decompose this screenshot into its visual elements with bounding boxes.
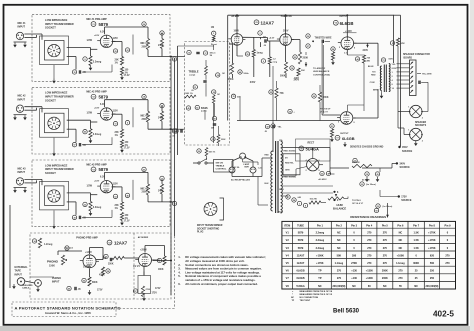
svg-text:MIC #1 PRE-AMP: MIC #1 PRE-AMP bbox=[86, 18, 107, 21]
svg-text:INPUT TRANSFORMER: INPUT TRANSFORMER bbox=[45, 95, 74, 99]
svg-text:Pin 7: Pin 7 bbox=[413, 224, 420, 227]
svg-text:Pin 2: Pin 2 bbox=[336, 224, 343, 227]
svg-text:27: 27 bbox=[173, 59, 175, 61]
svg-text:17.2V: 17.2V bbox=[124, 220, 130, 222]
capacitor .05 phono cathode bbox=[67, 286, 82, 291]
svg-text:12AX7: 12AX7 bbox=[297, 254, 305, 257]
wire plate to coupling bbox=[105, 27, 149, 57]
svg-text:200K: 200K bbox=[323, 97, 329, 99]
svg-text:115V: 115V bbox=[113, 38, 119, 40]
label MIC #1 INPUT bbox=[18, 22, 27, 29]
svg-text:240K: 240K bbox=[158, 117, 164, 120]
ac receptacle 1 bbox=[229, 167, 235, 173]
svg-text:402-5: 402-5 bbox=[433, 310, 454, 319]
svg-text:6L6GB: 6L6GB bbox=[296, 277, 304, 280]
svg-text:BRN: BRN bbox=[373, 90, 378, 92]
svg-text:INPUT: INPUT bbox=[18, 171, 26, 174]
svg-text:PHONO: PHONO bbox=[47, 260, 59, 264]
svg-text:NO CONNECTION: NO CONNECTION bbox=[300, 297, 319, 299]
svg-text:LOW IMPEDANCE: LOW IMPEDANCE bbox=[45, 91, 68, 95]
svg-text:6L6GB: 6L6GB bbox=[296, 270, 304, 273]
wire input to socket bbox=[24, 179, 42, 185]
svg-text:BLUE: BLUE bbox=[368, 66, 374, 68]
svg-text:TO ARM OF: TO ARM OF bbox=[313, 67, 326, 70]
svg-text:TREBLE: TREBLE bbox=[189, 70, 199, 73]
svg-text:11: 11 bbox=[115, 124, 117, 126]
circled ref mid bbox=[288, 109, 296, 113]
node 9 junction bbox=[333, 199, 339, 202]
svg-text:205V: 205V bbox=[283, 31, 289, 33]
svg-text:5: 5 bbox=[338, 122, 339, 124]
svg-text:LOW IMPEDANCE: LOW IMPEDANCE bbox=[45, 163, 68, 167]
label 150K 1pc bbox=[184, 93, 193, 95]
svg-text:RECT: RECT bbox=[308, 142, 315, 145]
svg-text:SOCKETS: SOCKETS bbox=[415, 125, 427, 127]
svg-text:INPUT TRANSFORMER: INPUT TRANSFORMER bbox=[45, 167, 74, 171]
svg-text:Pin 5: Pin 5 bbox=[382, 224, 389, 227]
resistor 240K mixer bbox=[158, 104, 164, 122]
svg-text:270: 270 bbox=[367, 254, 372, 257]
svg-text:(only): (only) bbox=[201, 111, 207, 113]
svg-text:SOCKET: SOCKET bbox=[45, 171, 56, 175]
ground at grid resistor bbox=[89, 66, 93, 71]
resistor 75K bleeder bbox=[269, 88, 284, 98]
svg-text:46: 46 bbox=[126, 194, 128, 197]
svg-text:37: 37 bbox=[307, 46, 309, 48]
svg-text:+40 450V: +40 450V bbox=[318, 178, 327, 181]
svg-text:INPUT TRANSFORMER: INPUT TRANSFORMER bbox=[45, 22, 74, 26]
resistor 25K cathode bbox=[115, 202, 124, 211]
label 6.3V heater bbox=[94, 177, 105, 183]
svg-text:SOCKET: SOCKET bbox=[45, 26, 56, 30]
label OUTPUT V6 bbox=[339, 16, 348, 18]
label COM lead bbox=[370, 82, 375, 84]
svg-text:250K: 250K bbox=[142, 46, 148, 48]
svg-text:22: 22 bbox=[126, 50, 128, 52]
label 100V bbox=[234, 31, 240, 33]
label 1/2W bbox=[87, 40, 93, 42]
svg-text:BASS: BASS bbox=[201, 107, 208, 110]
resistor 800 ohm filter bbox=[352, 158, 372, 167]
wire twisted pair run bbox=[322, 41, 340, 115]
svg-text:TUBE: TUBE bbox=[297, 224, 304, 227]
speaker connector board outline bbox=[410, 60, 417, 96]
transformer T2 output primary bbox=[380, 66, 381, 91]
fuse 2 amp bbox=[243, 163, 262, 170]
tube V6 designator bbox=[333, 20, 353, 25]
svg-text:V6 & V7: V6 & V7 bbox=[320, 112, 329, 114]
svg-text:SOCKET: SOCKET bbox=[45, 98, 56, 102]
svg-text:1.2meg: 1.2meg bbox=[44, 243, 53, 246]
resistor 150 ohm bbox=[120, 212, 129, 220]
table footnotes bbox=[291, 290, 333, 302]
svg-text:200K: 200K bbox=[382, 270, 388, 273]
svg-text:SOURCE: SOURCE bbox=[401, 199, 412, 202]
label 6.3V heater bbox=[94, 104, 105, 110]
svg-text:270: 270 bbox=[445, 254, 450, 257]
dashed chassis bottom edge bbox=[119, 236, 175, 309]
label 115V plate bbox=[113, 38, 119, 40]
resistor 250K series bbox=[112, 256, 124, 259]
svg-text:1M: 1M bbox=[210, 55, 213, 57]
wire plate to coupling bbox=[105, 100, 149, 130]
wire rail drop V5 bbox=[236, 14, 287, 34]
resistor 240K mixer bbox=[158, 176, 164, 194]
label low impedance input transformer socket bbox=[45, 163, 74, 175]
resistor treble 1M bbox=[205, 66, 225, 77]
pot PHONO 150K bbox=[47, 246, 69, 267]
svg-text:MEASURED FROM PIN 8 OF V8: MEASURED FROM PIN 8 OF V8 bbox=[300, 290, 333, 293]
svg-text:Measured values are from socke: Measured values are from socket pin to c… bbox=[185, 267, 262, 271]
svg-text:270: 270 bbox=[367, 239, 372, 242]
svg-text:SOURCE: SOURCE bbox=[400, 166, 411, 169]
label 6.3V heater bbox=[94, 31, 105, 37]
svg-text:OUTPUT: OUTPUT bbox=[339, 16, 348, 18]
svg-text:+140V: +140V bbox=[85, 251, 92, 254]
wire tape input run bbox=[10, 205, 54, 288]
svg-text:31: 31 bbox=[194, 87, 196, 89]
resistor 470K plate bbox=[99, 267, 110, 277]
svg-text:HUM BALANCE: HUM BALANCE bbox=[313, 70, 330, 73]
svg-text:MIC #2: MIC #2 bbox=[141, 116, 149, 118]
svg-text:115V: 115V bbox=[113, 111, 119, 113]
input transformer socket XV2 bbox=[40, 109, 69, 138]
svg-text:1/2 V4: 1/2 V4 bbox=[133, 265, 140, 268]
svg-text:50H: 50H bbox=[389, 59, 393, 61]
ac receptacle 2 bbox=[250, 167, 256, 173]
dashed divider AF mixer bbox=[133, 233, 135, 299]
label EXTERNAL TAPE INPUT bbox=[15, 266, 29, 276]
transformer T2 core bbox=[384, 65, 386, 93]
svg-text:AF AMP: AF AMP bbox=[231, 15, 240, 18]
svg-text:3.3meg: 3.3meg bbox=[93, 206, 102, 209]
wire heater bus bbox=[282, 186, 348, 203]
svg-text:45: 45 bbox=[187, 107, 189, 110]
resistor 250K phase plate bbox=[293, 52, 309, 80]
svg-text:680K: 680K bbox=[92, 282, 98, 284]
svg-text:12AX7: 12AX7 bbox=[297, 262, 305, 265]
capacitor treble .05 bbox=[191, 81, 207, 92]
label OUTPUT V7 bbox=[335, 133, 355, 141]
resistor 680K bbox=[82, 277, 98, 286]
wire rail drop V6 bbox=[346, 14, 348, 37]
svg-text:MIC #3 PRE-AMP: MIC #3 PRE-AMP bbox=[86, 163, 107, 166]
svg-text:270: 270 bbox=[383, 254, 388, 257]
svg-text:33: 33 bbox=[321, 173, 323, 175]
label low impedance input transformer socket bbox=[45, 91, 74, 103]
dashed enclosure phono pre-amp bbox=[30, 233, 171, 299]
svg-text:470K: 470K bbox=[99, 274, 105, 277]
label to pin 8 bbox=[352, 200, 364, 205]
pot bass 1M bbox=[212, 90, 221, 103]
wire V6 screen bbox=[347, 50, 364, 56]
svg-text:200K: 200K bbox=[382, 277, 388, 280]
svg-text:EXTERNAL: EXTERNAL bbox=[15, 266, 29, 269]
svg-text:Twisted: Twisted bbox=[65, 247, 74, 250]
svg-text:5U4GA: 5U4GA bbox=[296, 285, 305, 288]
label MIC #2 INPUT bbox=[18, 95, 27, 102]
svg-text:1M: 1M bbox=[217, 94, 220, 96]
ground phono cathode box bbox=[142, 272, 146, 302]
svg-text:+100K: +100K bbox=[316, 254, 324, 257]
wire block bottom bbox=[52, 65, 112, 84]
connector external tape jack bbox=[12, 278, 34, 289]
circled ref 6PK bbox=[390, 38, 405, 46]
socket shorting plug bbox=[204, 198, 224, 220]
wire ac to transformer bbox=[232, 158, 271, 205]
svg-text:560: 560 bbox=[430, 262, 435, 265]
label 17.2V cathode bbox=[124, 75, 130, 77]
svg-text:180K: 180K bbox=[158, 269, 164, 271]
label 1/2W bbox=[87, 185, 93, 187]
svg-text:OUTPUT: OUTPUT bbox=[340, 133, 349, 135]
svg-text:PHASE INV: PHASE INV bbox=[281, 15, 293, 18]
label BLK leads bbox=[265, 155, 284, 214]
svg-text:6L6GB: 6L6GB bbox=[342, 136, 355, 141]
svg-text:41: 41 bbox=[173, 202, 175, 205]
svg-text:NC: NC bbox=[337, 239, 341, 242]
label MIC #3 PRE-AMP header bbox=[86, 163, 107, 166]
svg-text:9: 9 bbox=[263, 61, 264, 63]
svg-text:6.: 6. bbox=[178, 282, 181, 286]
switch SW on treble control bbox=[193, 159, 233, 173]
svg-text:INPUT: INPUT bbox=[52, 281, 60, 284]
svg-text:V7: V7 bbox=[336, 138, 338, 140]
svg-text:1.5K: 1.5K bbox=[414, 232, 419, 235]
pot R6 1M direct bbox=[211, 27, 217, 46]
label AC RECEPTACLES bbox=[231, 179, 251, 182]
svg-text:V8: V8 bbox=[300, 148, 302, 150]
label 345V a bbox=[250, 81, 256, 84]
svg-text:DENOTES CHASSIS GROUND: DENOTES CHASSIS GROUND bbox=[350, 146, 384, 149]
svg-text:INPUT: INPUT bbox=[18, 98, 26, 101]
label MIC #1 PRE-AMP header bbox=[86, 18, 107, 21]
svg-text:1/2W: 1/2W bbox=[87, 185, 93, 187]
svg-text:BALANCE: BALANCE bbox=[333, 206, 346, 210]
transformer T2 secondary bbox=[389, 64, 390, 92]
svg-text:NC: NC bbox=[399, 239, 403, 242]
svg-text:CABLE: CABLE bbox=[22, 286, 30, 289]
svg-text:270: 270 bbox=[383, 247, 388, 250]
label 345V b bbox=[294, 78, 300, 81]
connector MIC #1 input jack bbox=[13, 32, 27, 47]
svg-text:MIC #1: MIC #1 bbox=[141, 43, 149, 45]
svg-text:1.1meg: 1.1meg bbox=[335, 262, 344, 265]
svg-text:220K: 220K bbox=[221, 139, 226, 141]
svg-text:240K: 240K bbox=[158, 189, 164, 192]
svg-text:CONTROL: CONTROL bbox=[216, 169, 227, 171]
svg-text:A PHOTOFACT STANDARD NOTATION: A PHOTOFACT STANDARD NOTATION SCHEMATIC bbox=[15, 305, 121, 310]
label MIC #3 INPUT bbox=[18, 167, 27, 174]
wire V7 plate bbox=[354, 89, 378, 118]
circled ref v6 cathode bbox=[331, 47, 335, 65]
wire mixer feed bbox=[178, 45, 214, 50]
svg-text:270: 270 bbox=[367, 232, 372, 235]
svg-text:V2: V2 bbox=[92, 97, 94, 99]
svg-text:6PK: 6PK bbox=[401, 43, 406, 45]
capacitor output top bbox=[306, 34, 324, 48]
connector MIC #2 input jack bbox=[13, 105, 27, 120]
wire AF amp internals bbox=[230, 37, 322, 78]
rectifier V8 5U4GA bbox=[306, 159, 321, 173]
label YEL-GRN tap bbox=[417, 74, 432, 76]
svg-text:3 2: 3 2 bbox=[344, 53, 347, 55]
svg-text:ITEM: ITEM bbox=[284, 224, 290, 227]
heater circuit refs bbox=[279, 189, 321, 208]
wire bus vertical 1 bbox=[170, 56, 172, 295]
svg-text:+100K: +100K bbox=[397, 254, 405, 257]
svg-text:YEL: YEL bbox=[392, 64, 397, 66]
resistor 750 ohm screen bbox=[355, 55, 371, 63]
tube V4 designator bbox=[107, 240, 128, 245]
svg-text:3.3meg: 3.3meg bbox=[93, 61, 102, 64]
resistor 220K bbox=[211, 135, 226, 144]
tube V2 designator bbox=[91, 94, 109, 99]
svg-text:Pin 9: Pin 9 bbox=[445, 224, 452, 227]
resistor 150K 1pc bbox=[185, 95, 197, 98]
svg-text:270: 270 bbox=[398, 270, 403, 273]
capacitor .05 coupling bbox=[72, 70, 86, 74]
wire output to bus bbox=[148, 106, 170, 130]
svg-text:RESISTANCE READINGS: RESISTANCE READINGS bbox=[350, 215, 386, 219]
wire B+ long vertical bbox=[394, 15, 401, 146]
ground at grid resistor bbox=[89, 138, 93, 143]
svg-text:20K: 20K bbox=[301, 70, 305, 72]
svg-text:NC: NC bbox=[318, 285, 322, 288]
svg-text:270: 270 bbox=[337, 270, 342, 273]
svg-text:1: 1 bbox=[299, 203, 300, 205]
label RECT bbox=[296, 139, 331, 161]
svg-text:20: 20 bbox=[198, 151, 200, 153]
svg-text:29: 29 bbox=[114, 51, 116, 53]
svg-text:270: 270 bbox=[367, 262, 372, 265]
svg-text:MIC #2: MIC #2 bbox=[18, 95, 27, 98]
svg-text:GRN: GRN bbox=[279, 189, 284, 191]
svg-text:MIC #2 PRE-AMP: MIC #2 PRE-AMP bbox=[86, 91, 107, 94]
svg-text:29: 29 bbox=[313, 96, 315, 98]
svg-text:250: 250 bbox=[430, 277, 435, 280]
svg-text:variation of +-15% in voltage: variation of +-15% in voltage and resist… bbox=[185, 278, 255, 282]
svg-text:17.2V: 17.2V bbox=[124, 148, 130, 150]
pot MIC #1 level 250K bbox=[141, 22, 150, 50]
svg-text:17: 17 bbox=[204, 53, 206, 55]
svg-text:270: 270 bbox=[383, 239, 388, 242]
label 205V bbox=[283, 31, 289, 33]
svg-text:Socket connections are shown a: Socket connections are shown as bottom v… bbox=[185, 263, 249, 267]
input transformer socket XV1 bbox=[40, 36, 69, 65]
wire sources bbox=[380, 166, 399, 197]
label AF MIXER bbox=[138, 236, 149, 239]
svg-text:5879: 5879 bbox=[298, 239, 304, 242]
svg-text:17.2V: 17.2V bbox=[124, 75, 130, 77]
resistor 15K 1pc bbox=[197, 148, 216, 157]
pot MIC #2 level 250K bbox=[141, 95, 150, 123]
svg-text:200,000(M): 200,000(M) bbox=[426, 285, 439, 288]
transformer T2 designator bbox=[380, 58, 393, 99]
svg-text:51: 51 bbox=[331, 126, 333, 128]
circled ref cathode parts bbox=[113, 121, 129, 126]
svg-text:173V: 173V bbox=[401, 196, 407, 199]
svg-text:MEASURED FROM PIN 5 OF V5: MEASURED FROM PIN 5 OF V5 bbox=[300, 293, 333, 296]
resistor 25K cathode bbox=[115, 129, 124, 138]
secondary tap labels bbox=[392, 64, 397, 90]
svg-text:+170K: +170K bbox=[316, 262, 324, 265]
triode V5b phase inverter bbox=[277, 34, 294, 46]
label BRN lead bbox=[373, 90, 378, 92]
solid box phono cathode network bbox=[138, 276, 151, 294]
wire screens supply bbox=[348, 63, 365, 111]
svg-text:RED/YEL: RED/YEL bbox=[285, 163, 294, 165]
svg-text:SW ON: SW ON bbox=[216, 163, 224, 165]
svg-text:+1300: +1300 bbox=[366, 270, 374, 273]
wire mid bus bbox=[237, 81, 340, 121]
dashed enclosure MIC #2 pre-amp bbox=[32, 87, 170, 154]
wire mixer to AF amp bbox=[229, 43, 231, 45]
svg-text:(Im 30ma): (Im 30ma) bbox=[366, 184, 376, 186]
label 402-5 bbox=[433, 310, 454, 319]
svg-text:Howard W. Sams & Co., Inc. 195: Howard W. Sams & Co., Inc. 1956 bbox=[45, 311, 91, 315]
svg-text:50: 50 bbox=[84, 132, 86, 134]
svg-text:LOW IMPEDANCE: LOW IMPEDANCE bbox=[45, 18, 68, 22]
svg-text:345V: 345V bbox=[250, 81, 256, 84]
label speaker sockets bbox=[415, 121, 427, 127]
svg-text:55: 55 bbox=[246, 54, 248, 56]
wire block bottom bbox=[52, 137, 112, 156]
svg-text:1%: 1% bbox=[115, 135, 118, 137]
svg-text:1.5K: 1.5K bbox=[414, 247, 419, 250]
svg-text:AC RECEPTACLES: AC RECEPTACLES bbox=[231, 179, 251, 182]
svg-text:OF V6 & V7: OF V6 & V7 bbox=[352, 203, 364, 205]
svg-text:6L6GB: 6L6GB bbox=[340, 21, 354, 26]
svg-text:8: 8 bbox=[354, 48, 355, 50]
label speaker connector board bbox=[403, 53, 430, 59]
svg-text:GRN: GRN bbox=[392, 68, 397, 70]
svg-text:1meg: 1meg bbox=[257, 53, 264, 55]
ground phono cathode bbox=[88, 290, 92, 295]
triode V5a AF amp bbox=[228, 34, 245, 46]
label AF AMP bbox=[231, 15, 240, 18]
svg-text:400K: 400K bbox=[228, 78, 234, 81]
connector MIC #3 input jack bbox=[13, 178, 27, 193]
svg-text:25K: 25K bbox=[115, 60, 120, 62]
wire phono out bbox=[153, 260, 172, 262]
svg-text:340V: 340V bbox=[400, 163, 406, 166]
wire 345 drop bbox=[272, 66, 274, 122]
resistor 500K tail bbox=[280, 62, 294, 78]
label AC interlock bbox=[234, 166, 241, 169]
capacitor .05 coupling bbox=[72, 143, 86, 147]
svg-text:53: 53 bbox=[114, 196, 116, 198]
resistor 200K bleeder bbox=[312, 92, 329, 102]
svg-text:12AX7: 12AX7 bbox=[261, 20, 275, 25]
svg-text:(only): (only) bbox=[190, 75, 196, 77]
svg-text:100 2W: 100 2W bbox=[310, 199, 317, 201]
svg-text:56: 56 bbox=[83, 280, 85, 282]
label 1/2W bbox=[87, 113, 93, 115]
ground at grid resistor bbox=[89, 211, 93, 216]
svg-text:NC: NC bbox=[291, 297, 295, 299]
svg-text:32: 32 bbox=[84, 204, 86, 206]
wire mic2 out bbox=[170, 128, 178, 130]
wire V6 plate bbox=[354, 43, 378, 66]
tube V8 designator bbox=[299, 146, 319, 151]
triode V4a phono bbox=[80, 255, 99, 268]
svg-text:450V: 450V bbox=[402, 146, 408, 149]
capacitor speaker net bbox=[419, 81, 428, 106]
capacitor bass bbox=[211, 116, 217, 129]
svg-text:TP: TP bbox=[318, 277, 322, 280]
transformer T1 designator bbox=[271, 124, 282, 129]
